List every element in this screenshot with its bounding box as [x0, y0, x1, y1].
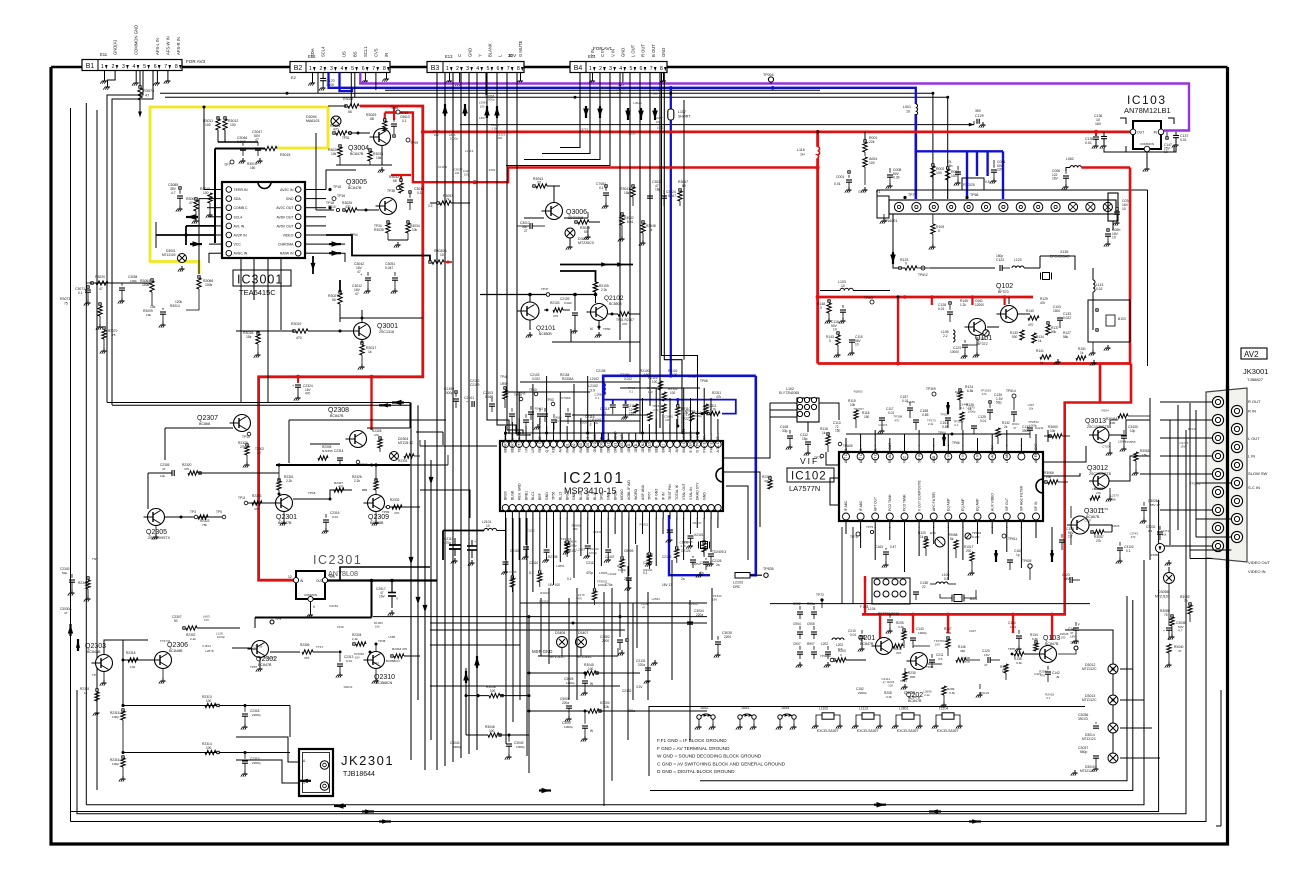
junction dot red tuner rail x972: [971, 295, 975, 299]
pin 62 IC2101: [516, 505, 522, 511]
capacitor C006 L062: [1070, 166, 1074, 168]
svg-text:470: 470: [304, 656, 309, 660]
pin 6 IC102: [916, 453, 923, 460]
svg-text:3900: 3900: [1022, 429, 1029, 433]
svg-text:TP68: TP68: [970, 193, 978, 197]
svg-text:10k: 10k: [1029, 407, 1034, 411]
svg-text:C2314: C2314: [334, 449, 344, 453]
svg-text:0.01: 0.01: [332, 515, 338, 519]
capacitor C3031b: [160, 311, 166, 313]
ground below B3 pin 2: [459, 73, 461, 81]
resistor R3022 red feed: [348, 104, 359, 108]
transistor Q2302: [252, 641, 269, 658]
junction dot red 817-297: [816, 295, 820, 299]
wire Q2102 emitter ground: [598, 321, 600, 331]
wire Q2307 base rail: [165, 427, 233, 429]
svg-text:R3020: R3020: [95, 275, 105, 279]
pin 4 IC2101: [523, 441, 529, 447]
svg-text:7: 7: [650, 66, 653, 72]
svg-text:10k: 10k: [455, 171, 460, 175]
jumper JU82: [697, 715, 701, 719]
wire bundle B4 staircase to AV switch: [560, 73, 580, 148]
svg-text:TP318: TP318: [598, 86, 607, 90]
svg-text:TJB8827: TJB8827: [1247, 377, 1264, 382]
svg-text:Q102: Q102: [996, 283, 1013, 290]
svg-text:IF ABC: IF ABC: [859, 500, 863, 511]
svg-text:4: 4: [476, 66, 479, 72]
junction dot red rail x913: [911, 613, 915, 617]
svg-text:G MUTE: G MUTE: [518, 41, 523, 57]
jack pin L8 JK3001: [1212, 522, 1223, 533]
test point TP004 on purple bus: [768, 77, 773, 82]
inductor L116 on red wire: [818, 147, 820, 158]
svg-text:C700: C700: [1102, 445, 1110, 449]
svg-text:TP3733: TP3733: [160, 639, 171, 643]
svg-text:4.7: 4.7: [171, 191, 176, 195]
svg-text:TP004: TP004: [763, 73, 774, 77]
svg-text:TP9: TP9: [275, 617, 281, 621]
transistor Q3012: [1093, 473, 1109, 489]
svg-text:Q103: Q103: [1043, 635, 1060, 642]
svg-text:0.1: 0.1: [629, 390, 633, 394]
svg-text:C1049: C1049: [607, 572, 616, 576]
pin 16 IC3001: [295, 187, 301, 193]
wire Q101 base trace: [930, 267, 995, 269]
svg-text:APC FILTER: APC FILTER: [932, 492, 936, 511]
test point TP614: [1012, 394, 1016, 398]
crystal B501: [954, 595, 962, 602]
svg-text:16V: 16V: [434, 133, 439, 137]
filter L2801: [902, 713, 914, 719]
svg-text:L2849: L2849: [1118, 439, 1127, 443]
svg-text:JU83: JU83: [741, 706, 749, 710]
pin 7 IC2101: [543, 441, 549, 447]
capacitor C163: [883, 551, 889, 553]
junction dot red 371-376: [370, 375, 374, 379]
transistor Q3004: [374, 129, 391, 146]
svg-text:L2801: L2801: [899, 707, 909, 711]
transistor Q202: [911, 653, 928, 670]
pin 1 TN4001: [894, 202, 903, 211]
jack pin L6 JK3001: [1212, 486, 1223, 497]
wire bold corner to Q2102: [560, 271, 596, 282]
svg-text:75: 75: [1184, 599, 1188, 603]
svg-text:W: W: [590, 729, 593, 733]
capacitor C3057: [582, 725, 588, 727]
wire bundle B4 pins down: [619, 73, 621, 341]
svg-text:DRG3.DGND: DRG3.DGND: [613, 431, 617, 452]
svg-text:Y: Y: [477, 54, 482, 57]
svg-text:R204: R204: [1102, 409, 1110, 413]
svg-text:V OUT COMPOSITE: V OUT COMPOSITE: [917, 479, 921, 511]
pin 9 IC3001: [295, 250, 301, 256]
cluster caps above IC2101 left: [509, 413, 515, 415]
svg-text:2.2k: 2.2k: [601, 288, 607, 292]
svg-text:TD2409-3: TD2409-3: [712, 550, 726, 554]
svg-text:16V: 16V: [984, 653, 990, 657]
svg-text:5: 5: [486, 66, 489, 72]
pin 27 IC102: [857, 513, 864, 520]
svg-text:4: 4: [133, 64, 136, 70]
wire L2101 rail: [442, 432, 444, 445]
svg-text:15p: 15p: [835, 429, 841, 433]
svg-text:27k: 27k: [1096, 539, 1102, 543]
svg-text:IC2301: IC2301: [313, 553, 362, 567]
test point TP7: [230, 160, 234, 164]
capacitor C3013: [393, 106, 395, 120]
svg-text:2.2k: 2.2k: [928, 422, 934, 426]
transistor Q3006: [546, 203, 563, 220]
pin 48 IC2101: [612, 505, 618, 511]
svg-text:1500: 1500: [1053, 309, 1060, 313]
svg-text:TEST P/A: TEST P/A: [517, 436, 521, 452]
svg-text:R3014: R3014: [170, 304, 180, 308]
svg-text:12: 12: [288, 575, 292, 579]
wire blue vertical right of IC2101: [735, 376, 756, 575]
resistor R2110 blue stub: [677, 405, 679, 407]
svg-text:470p: 470p: [586, 571, 593, 575]
svg-text:C2159: C2159: [470, 383, 480, 387]
wire Q2309 link: [293, 498, 330, 500]
svg-text:R2108: R2108: [548, 555, 558, 559]
resistor R148: [827, 303, 831, 313]
svg-text:TP60: TP60: [603, 327, 611, 331]
svg-text:47k: 47k: [1040, 301, 1046, 305]
svg-text:100: 100: [1061, 635, 1066, 639]
svg-text:0.1: 0.1: [1046, 696, 1050, 700]
svg-text:TP99: TP99: [410, 141, 418, 145]
svg-text:L1680: L1680: [907, 400, 916, 404]
svg-text:6.64: 6.64: [627, 220, 633, 224]
svg-text:0: 0: [905, 262, 907, 266]
svg-text:0.1: 0.1: [599, 186, 604, 190]
wire red vertical tuner right: [1129, 168, 1132, 364]
inductor L001 on blue wire: [916, 104, 918, 108]
ground below B4 pin 1: [592, 73, 594, 79]
svg-text:0.1: 0.1: [417, 191, 422, 195]
svg-text:AN78M12LB1: AN78M12LB1: [1124, 106, 1171, 115]
svg-text:3.3V: 3.3V: [636, 685, 643, 689]
ground below B3 pin 1: [449, 73, 451, 79]
pin 37 IC2101: [687, 505, 693, 511]
svg-text:150: 150: [250, 166, 256, 170]
svg-text:47: 47: [642, 606, 646, 610]
wire blue stub R2110: [677, 400, 679, 405]
svg-text:10: 10: [833, 328, 837, 332]
pin 40 IC2101: [667, 505, 673, 511]
svg-text:TP67: TP67: [648, 492, 652, 500]
capacitor C008: [887, 174, 893, 176]
svg-text:TP605: TP605: [1022, 559, 1032, 563]
svg-text:AV8V OUT: AV8V OUT: [276, 215, 294, 219]
resistor R209: [942, 686, 946, 695]
test point TP9: [270, 620, 274, 624]
svg-text:100: 100: [869, 161, 875, 165]
svg-text:LP ABC: LP ABC: [1005, 451, 1009, 463]
pin 3 IC2101: [516, 441, 522, 447]
svg-text:L116: L116: [797, 148, 805, 152]
label IC3001: [233, 270, 291, 286]
resistor R3048: [642, 221, 644, 223]
inductor L2101: [484, 528, 488, 530]
svg-text:TP45: TP45: [378, 639, 386, 643]
svg-text:VIDEO OUT: VIDEO OUT: [1248, 560, 1271, 565]
svg-text:R2306: R2306: [300, 643, 310, 647]
svg-text:TP11: TP11: [238, 496, 246, 500]
wire IC2101 top long stubs: [518, 392, 520, 434]
svg-text:R/BW IN: R/BW IN: [280, 252, 294, 256]
svg-text:L3851: L3851: [556, 564, 565, 568]
svg-text:JK3001: JK3001: [1243, 367, 1268, 376]
svg-text:R2850: R2850: [692, 562, 701, 566]
svg-text:7: 7: [507, 66, 510, 72]
svg-text:0.02: 0.02: [1096, 287, 1103, 291]
svg-text:1: 1: [589, 66, 592, 72]
pin 17 IC102: [1003, 513, 1010, 520]
resistor R001: [864, 132, 866, 140]
svg-text:10k: 10k: [412, 228, 418, 232]
wire JK2301 leads: [236, 737, 299, 762]
svg-text:GND: GND: [620, 48, 625, 57]
coil L113: [1093, 280, 1095, 284]
pin 25 IC2101: [667, 441, 673, 447]
svg-text:R2318: R2318: [126, 651, 136, 655]
capacitor C128 tuner: [947, 311, 953, 313]
svg-text:B4: B4: [574, 65, 583, 72]
svg-text:47: 47: [984, 663, 988, 667]
svg-text:C131: C131: [978, 337, 986, 341]
svg-text:0.1: 0.1: [954, 423, 958, 427]
svg-text:100k: 100k: [130, 279, 137, 283]
junction dot red rail x1013: [1011, 613, 1015, 617]
wire red vertical tuner supply with coil L116: [816, 132, 819, 147]
svg-text:10: 10: [1112, 236, 1116, 240]
svg-text:56: 56: [348, 110, 352, 114]
svg-text:KBP: KBP: [552, 445, 556, 453]
svg-text:TP309: TP309: [926, 387, 936, 391]
resistor R2103: [553, 308, 563, 312]
svg-text:D STR OUT1: D STR OUT1: [696, 432, 700, 453]
svg-text:100: 100: [1110, 421, 1115, 425]
svg-text:7: 7: [372, 66, 375, 72]
capacitor C170 below B2 pin 2: [322, 73, 324, 79]
svg-text:16V: 16V: [1095, 122, 1102, 126]
svg-text:X135: X135: [1060, 250, 1068, 254]
capacitor C135 at IC103 input: [1093, 136, 1099, 138]
svg-text:470: 470: [184, 467, 189, 471]
transistor Q2306: [155, 652, 172, 669]
test point TP79 on bar: [903, 196, 906, 199]
svg-text:MSP3410-15: MSP3410-15: [564, 486, 617, 496]
svg-text:AFS-L IN: AFS-L IN: [155, 38, 160, 55]
wire mid horizontal bus pair: [107, 402, 410, 404]
svg-text:Q3004: Q3004: [348, 145, 369, 152]
transistor Q201: [876, 638, 893, 655]
transistor Q3013: [1093, 427, 1109, 443]
svg-text:C5009: C5009: [624, 549, 634, 553]
svg-text:TP56: TP56: [552, 492, 556, 500]
svg-text:2200p: 2200p: [252, 713, 261, 717]
svg-text:TP73: TP73: [814, 456, 822, 460]
svg-text:MTZJ12C: MTZJ12C: [1082, 698, 1097, 702]
svg-text:100: 100: [672, 373, 678, 377]
wire bottom bus 5: [59, 813, 61, 815]
wire Q2308 cluster: [310, 443, 340, 445]
svg-text:470: 470: [1028, 323, 1034, 327]
resistor R109 below bar: [932, 214, 934, 224]
svg-text:500: 500: [1012, 335, 1018, 339]
svg-text:R2303: R2303: [252, 494, 262, 498]
svg-text:RIV IN: RIV IN: [976, 453, 980, 463]
wire Q2305 rail: [148, 472, 172, 474]
svg-text:TP85: TP85: [926, 665, 934, 669]
wire Q2102 bottom box: [560, 366, 648, 368]
svg-text:2.2k: 2.2k: [681, 544, 687, 548]
svg-text:TP54: TP54: [350, 233, 358, 237]
svg-text:16V: 16V: [1070, 635, 1076, 639]
svg-text:R3073: R3073: [60, 297, 70, 301]
svg-text:EQ AMP: EQ AMP: [976, 498, 980, 511]
wire rail above IC2301: [276, 464, 410, 466]
resistor R3027: [339, 291, 341, 293]
svg-text:AW: AW: [668, 446, 672, 452]
svg-text:1: 1: [101, 64, 104, 70]
svg-text:DKAD STY: DKAD STY: [696, 482, 700, 500]
resistor R143 left: [836, 335, 840, 345]
resistor R137: [1046, 325, 1050, 335]
wire bottom mid horizontals: [770, 603, 1090, 605]
wire IC2301 output rail: [327, 579, 437, 581]
svg-text:0.022: 0.022: [624, 377, 632, 381]
pin 1 IC3001: [226, 187, 232, 193]
jack pin B JK2301: [320, 782, 328, 790]
svg-text:MTZJ12C: MTZJ12C: [1155, 595, 1170, 599]
svg-text:1900p: 1900p: [918, 631, 927, 635]
svg-text:BC850B: BC850B: [609, 302, 622, 306]
svg-text:ELYT2N2065: ELYT2N2065: [779, 391, 799, 395]
wire Q103 base: [1024, 653, 1038, 655]
wire bottom bus 7: [1220, 690, 1222, 826]
ground Q3013: [1109, 442, 1111, 450]
wire tuner out to IC102: [1092, 305, 1094, 330]
svg-text:C927: C927: [969, 629, 977, 633]
svg-text:2.2: 2.2: [943, 334, 948, 338]
pin 10 IC2101: [564, 441, 570, 447]
capacitor C3082: [617, 639, 623, 641]
svg-text:1000p: 1000p: [589, 551, 597, 555]
svg-text:Q2305: Q2305: [146, 529, 167, 536]
svg-text:BC868CN: BC868CN: [386, 659, 400, 663]
wire IC102 top stubs: [845, 438, 847, 446]
wire rail y603: [520, 602, 707, 604]
Q101 Q102 interconnect: [987, 326, 999, 328]
pin 15 IC102: [1033, 513, 1040, 520]
svg-text:BEF: BEF: [538, 493, 542, 500]
wire Q3006 net: [524, 217, 544, 219]
pin 15 IC2101: [598, 441, 604, 447]
svg-text:470: 470: [622, 322, 627, 326]
svg-text:COMMON: COMMON: [304, 593, 317, 597]
svg-text:0.047: 0.047: [385, 266, 393, 270]
svg-text:R2014: R2014: [344, 685, 353, 689]
wire vertical x637: [636, 545, 638, 648]
resistor A004: [864, 152, 866, 156]
svg-text:2.2k: 2.2k: [190, 637, 196, 641]
arrows on bottom buses: [334, 805, 346, 807]
wire C3046 node: [218, 141, 258, 143]
svg-text:TP76: TP76: [850, 535, 858, 539]
jack pin R3 JK3001: [1231, 441, 1242, 452]
pin 12 IC3001: [295, 223, 301, 229]
svg-text:0.5: 0.5: [944, 577, 949, 581]
pin 26 IC102: [872, 513, 879, 520]
wire Q3013 to jack lines: [1109, 420, 1150, 435]
wire left rail to IC3001: [107, 282, 122, 284]
wire blue comb drop 1: [966, 151, 968, 199]
jack pin L7 JK3001: [1212, 504, 1223, 515]
svg-text:1000p: 1000p: [564, 725, 573, 729]
wire B1 pin5 long drop to left bus: [107, 71, 143, 403]
capacitor C008A below bar: [1107, 229, 1109, 231]
wire left low rail: [104, 640, 148, 654]
svg-text:COMMON: COMMON: [1140, 142, 1154, 146]
wire bottom bus 4: [71, 500, 1159, 812]
svg-text:/77: /77: [858, 190, 863, 194]
pin 28 IC102: [843, 513, 850, 520]
svg-text:BC847B: BC847B: [908, 696, 920, 700]
junction dot red 817-167: [816, 166, 820, 170]
tuner sub-block B103: [1088, 300, 1130, 342]
svg-text:33p: 33p: [782, 429, 788, 433]
svg-text:RF DGND: RF DGND: [600, 436, 604, 452]
jack pin R5 JK3001: [1231, 477, 1242, 488]
pin 55 IC2101: [564, 505, 570, 511]
svg-text:1H: 1H: [800, 152, 805, 156]
svg-text:Q202: Q202: [904, 690, 915, 695]
svg-text:4: 4: [341, 66, 344, 72]
pin 2 IC103: [1144, 146, 1150, 152]
svg-text:47: 47: [355, 292, 359, 296]
svg-text:TP68: TP68: [700, 379, 708, 383]
svg-text:R3035: R3035: [374, 228, 384, 232]
svg-text:L1102: L1102: [819, 707, 828, 711]
svg-text:10: 10: [440, 253, 444, 257]
svg-text:1000p: 1000p: [516, 745, 525, 749]
resistor R2107 Q2102 emitter: [618, 312, 629, 316]
svg-text:IC103: IC103: [1127, 93, 1167, 107]
wire top bus segment B1 to B2: [182, 66, 290, 69]
wire bold video rail Q3006 to Q2102: [560, 264, 633, 266]
wire blue comb drop 4: [1002, 151, 1004, 199]
wire rail y616: [373, 616, 707, 618]
wire bold drop to Q2302 rail: [371, 581, 373, 618]
svg-text:R2334: R2334: [352, 633, 362, 637]
svg-text:470p: 470p: [444, 541, 451, 545]
pin 2 IC2101: [509, 441, 515, 447]
pin 1 IC102: [843, 453, 850, 460]
svg-text:100: 100: [203, 191, 209, 195]
wire horizontal feeders above IC2101: [505, 391, 590, 393]
svg-text:GND: GND: [286, 197, 294, 201]
svg-text:10000: 10000: [950, 350, 959, 354]
coil L106: [953, 330, 955, 334]
wire Q2301 base: [248, 502, 275, 504]
svg-text:1000p: 1000p: [444, 391, 453, 395]
resistor R3046: [466, 734, 488, 736]
svg-text:C2122: C2122: [643, 561, 653, 565]
svg-text:4: 4: [619, 66, 622, 72]
svg-text:4.7: 4.7: [257, 451, 262, 455]
